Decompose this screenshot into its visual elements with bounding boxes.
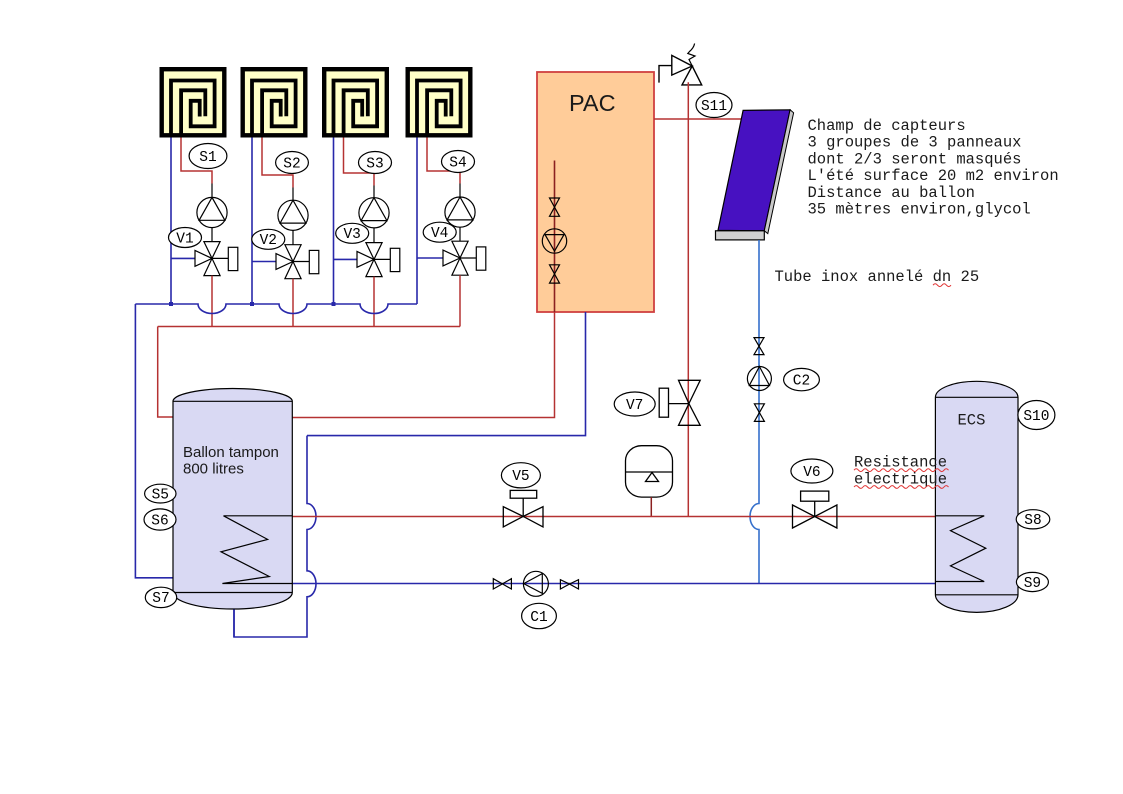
label S8 — [1016, 510, 1050, 529]
label V2 — [252, 229, 285, 249]
svg-text:V4: V4 — [431, 226, 448, 242]
wire red PAC to solar panel — [654, 118, 744, 120]
safety relief valve — [659, 44, 702, 85]
expansion vessel — [626, 446, 673, 497]
pump branch 2 — [278, 200, 308, 230]
wire red jog branch 2 — [262, 138, 293, 188]
floor heating coil panel 2 — [243, 69, 306, 137]
svg-text:S3: S3 — [366, 156, 383, 172]
svg-text:V5: V5 — [512, 469, 529, 485]
wire blue valve feed branch 4 — [417, 257, 443, 259]
label S11 — [696, 93, 732, 118]
wire red solar riser (safety valve to bottom) — [687, 82, 689, 516]
valve V6 — [793, 491, 837, 528]
wire red supply manifold — [158, 326, 460, 328]
wire pump stem top branch 2 — [292, 188, 294, 201]
spellcheck squiggle under dn — [933, 284, 951, 287]
wire red below valve branch 1 — [211, 276, 213, 327]
label V7 — [614, 392, 655, 416]
svg-text:S11: S11 — [701, 99, 727, 115]
valve left of C1 — [493, 579, 511, 589]
label S4 — [442, 151, 475, 173]
wire blue drop branch 1 — [170, 138, 172, 305]
wire pump stem top branch 1 — [211, 184, 213, 198]
solar panel 3d edge — [764, 110, 793, 234]
floor heating coil panel 4 — [408, 69, 471, 137]
svg-text:S2: S2 — [283, 156, 300, 172]
wire pump stem top branch 3 — [373, 186, 375, 198]
svg-text:Ballon tampon: Ballon tampon — [183, 444, 279, 461]
ECS tank — [935, 381, 1018, 612]
label C1 — [522, 603, 557, 628]
svg-text:35 mètres environ,glycol: 35 mètres environ,glycol — [808, 201, 1031, 219]
svg-text:V1: V1 — [176, 231, 193, 247]
svg-text:S4: S4 — [449, 155, 466, 171]
valve right of C1 — [560, 580, 578, 589]
wire PAC blue return horizontal — [307, 312, 586, 436]
svg-text:L'été surface 20 m2 environ: L'été surface 20 m2 environ — [808, 167, 1059, 185]
svg-text:dont 2/3 seront masqués: dont 2/3 seront masqués — [808, 150, 1022, 168]
wire blue valve feed branch 2 — [252, 261, 276, 263]
wire blue valve feed branch 3 — [334, 258, 358, 260]
wire red jog branch 3 — [344, 138, 375, 186]
label V1 — [169, 228, 202, 248]
wire blue drop branch 4 — [416, 138, 418, 305]
3-way mixing valve V3 — [357, 243, 400, 277]
squiggle under Resistance — [854, 469, 949, 472]
label V3 — [336, 223, 369, 243]
valve V5 — [503, 490, 543, 527]
wire light blue solar downpipe with bridge — [750, 240, 759, 584]
wire red main line buffer to ECS — [292, 516, 935, 518]
label S7 — [145, 587, 176, 607]
label S6 — [144, 509, 176, 530]
pump branch 1 — [197, 197, 227, 227]
label S5 — [145, 484, 176, 503]
wire blue valve feed branch 1 — [171, 257, 195, 259]
svg-text:C2: C2 — [793, 373, 810, 389]
solar collector panel — [718, 110, 790, 231]
valve above C2 — [754, 338, 764, 355]
pump in PAC — [542, 229, 566, 253]
svg-text:S10: S10 — [1023, 409, 1049, 425]
wire pump-valve stem branch 2 — [292, 230, 294, 244]
wire pump-valve stem branch 4 — [459, 227, 461, 241]
pump branch 3 — [359, 198, 389, 228]
svg-text:V6: V6 — [803, 465, 820, 481]
label S2 — [276, 152, 309, 174]
wire blue main line buffer to ECS — [292, 583, 935, 585]
svg-text:ECS: ECS — [958, 412, 986, 430]
floor heating coil panel 3 — [324, 69, 387, 137]
wire red below valve branch 4 — [459, 275, 461, 326]
label V6 — [791, 459, 833, 483]
wire red below valve branch 3 — [373, 277, 375, 327]
3-way mixing valve V4 — [443, 241, 486, 275]
wire red manifold to tank top left — [158, 327, 174, 418]
wire blue manifold to tank left — [135, 304, 173, 578]
svg-text:S6: S6 — [151, 513, 168, 529]
wire PAC red supply to buffer tank — [292, 312, 554, 418]
svg-text:S7: S7 — [152, 591, 169, 607]
squiggle under electrique — [854, 486, 949, 489]
label V5 — [501, 463, 540, 488]
svg-text:V7: V7 — [626, 398, 643, 414]
label S1 — [189, 144, 227, 169]
label C2 — [784, 368, 820, 390]
svg-text:Distance au ballon: Distance au ballon — [808, 184, 975, 202]
svg-text:S5: S5 — [152, 487, 169, 503]
wire expansion vessel stem — [650, 497, 652, 516]
pump C1 — [523, 571, 548, 596]
valve in PAC top — [550, 198, 560, 216]
ECS tank coil — [935, 516, 985, 582]
svg-text:800 litres: 800 litres — [183, 461, 244, 478]
label S10 — [1018, 401, 1055, 430]
svg-text:S1: S1 — [199, 150, 216, 166]
wire red below valve branch 2 — [292, 279, 294, 327]
wire pump-valve stem branch 3 — [373, 228, 375, 243]
pump branch 4 — [445, 197, 475, 227]
wire pump stem top branch 4 — [459, 184, 461, 198]
valve V7 — [659, 380, 700, 425]
wire red jog branch 4 — [427, 138, 460, 184]
label S3 — [359, 152, 392, 174]
svg-text:Champ de capteurs: Champ de capteurs — [808, 117, 966, 135]
svg-text:Tube inox annelé dn 25: Tube inox annelé dn 25 — [775, 268, 980, 286]
3-way mixing valve V1 — [195, 242, 238, 276]
wire buffer tank bottom stem — [233, 610, 235, 638]
solar panel base strip — [716, 231, 765, 240]
svg-text:V2: V2 — [260, 233, 277, 249]
label S9 — [1016, 572, 1048, 591]
wire pump-valve stem branch 1 — [211, 228, 213, 242]
PAC heat pump box — [537, 72, 654, 312]
buffer tank coil — [221, 516, 292, 584]
wire blue drop branch 3 — [333, 138, 335, 305]
svg-text:V3: V3 — [343, 227, 360, 243]
svg-text:PAC: PAC — [569, 90, 616, 116]
svg-text:S9: S9 — [1024, 576, 1041, 592]
wire PAC internal line — [554, 161, 556, 313]
junction dots on blue manifold — [169, 302, 173, 306]
svg-text:C1: C1 — [530, 610, 547, 626]
svg-text:3 groupes de 3 panneaux: 3 groupes de 3 panneaux — [808, 134, 1022, 152]
pump C2 — [747, 367, 771, 391]
wire blue return manifold with bridges — [135, 304, 417, 314]
buffer tank Ballon tampon — [173, 389, 292, 609]
label V4 — [423, 222, 456, 242]
floor heating coil panel 1 — [162, 69, 225, 137]
wire red jog branch 1 — [181, 138, 212, 184]
valve below C2 — [754, 404, 764, 422]
3-way mixing valve V2 — [276, 245, 319, 279]
wire blue drop branch 2 — [251, 138, 253, 305]
svg-text:S8: S8 — [1024, 513, 1041, 529]
valve in PAC bottom — [550, 265, 560, 283]
wire blue return vertical with bridges to tank bottom — [234, 436, 316, 637]
